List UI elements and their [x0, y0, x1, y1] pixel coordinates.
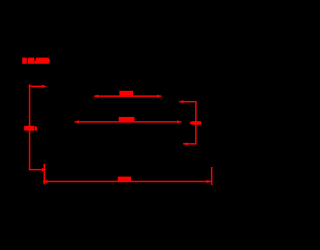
D3 right arrowhead	[207, 180, 211, 183]
left dimension top jog arrowhead	[42, 85, 46, 88]
right dimension text blob	[189, 121, 201, 125]
right dimension top jog arrowhead	[179, 100, 183, 103]
right dimension bottom jog line	[183, 143, 197, 145]
D3 right extension line	[211, 167, 213, 185]
D3 text blob	[118, 177, 131, 182]
dimension line D2 (middle horizontal)	[75, 121, 182, 123]
D2 left arrowhead	[75, 120, 79, 123]
left vertical dimension line	[29, 84, 31, 170]
D3 left arrowhead	[43, 180, 47, 183]
right dimension top jog line	[179, 101, 196, 103]
dimension line D3 (bottom horizontal)	[43, 181, 211, 183]
left dimension bottom jog arrowhead	[42, 168, 46, 171]
D2 right arrowhead	[177, 120, 181, 123]
left dimension text blob	[24, 126, 37, 131]
right dimension bottom jog arrowhead	[183, 142, 187, 145]
left dimension bottom jog line	[29, 169, 43, 171]
D1 right arrowhead	[157, 94, 161, 97]
D2 text blob	[119, 117, 135, 121]
D1 left arrowhead	[94, 94, 98, 97]
label text top-left (value blob)	[22, 58, 50, 64]
right vertical dimension line	[195, 101, 197, 145]
left dimension top jog line	[29, 86, 43, 88]
D3 left extension line	[44, 164, 46, 185]
dimension line D1 (top horizontal)	[94, 95, 162, 97]
D1 text blob	[119, 91, 133, 96]
